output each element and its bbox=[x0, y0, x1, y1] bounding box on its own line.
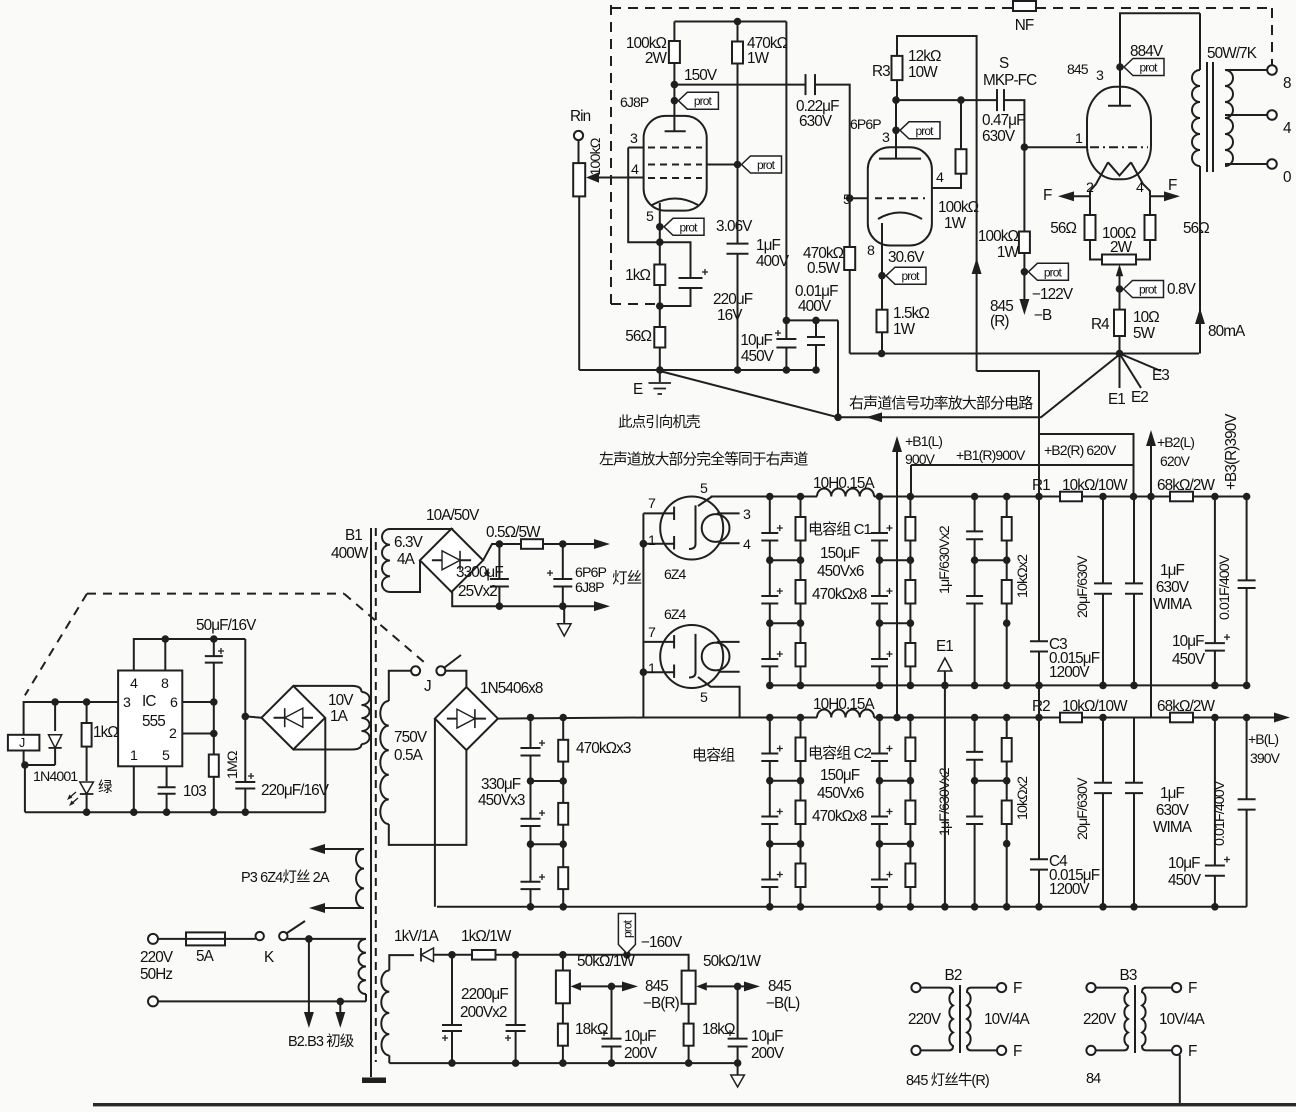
wire 0.01uF bottom bbox=[815, 345, 817, 370]
arrow F left bbox=[1058, 191, 1074, 201]
svg-text:845: 845 bbox=[1067, 61, 1089, 77]
junction 10kx2 top lower bbox=[1003, 714, 1011, 722]
svg-text:3: 3 bbox=[630, 131, 638, 147]
junction bank C1 col C tie cap 0 bbox=[876, 556, 884, 564]
wire 0.01F lower bot bbox=[1246, 810, 1248, 907]
terminal B2 pri bot bbox=[911, 1046, 920, 1055]
wire tap 0 bbox=[1225, 163, 1267, 165]
wire 10kx2 bot lower bbox=[1006, 824, 1008, 907]
junction HVrail 330a bbox=[527, 714, 535, 722]
junction bank C2 col A tie res 0 bbox=[797, 777, 805, 785]
svg-text:1A: 1A bbox=[330, 708, 349, 725]
svg-text:prot: prot bbox=[757, 158, 776, 172]
svg-text:prot: prot bbox=[1139, 61, 1158, 75]
wire 10V winding bottom bbox=[293, 749, 352, 751]
wire 2200b bot bbox=[515, 1031, 517, 1063]
wire bias top bbox=[389, 955, 414, 970]
wire R4 bottom bbox=[1119, 336, 1121, 354]
arrow 845BR bbox=[622, 981, 638, 991]
inductor OPT primary bbox=[1192, 70, 1200, 166]
svg-text:6Z4: 6Z4 bbox=[664, 606, 687, 622]
svg-text:0.01F/400V: 0.01F/400V bbox=[1217, 554, 1233, 620]
junction bank C2 col A tie cap 1 bbox=[766, 840, 774, 848]
wire bank C1 col A cap lead 2 bbox=[769, 623, 771, 659]
wire gnd tri stem bbox=[563, 606, 565, 624]
svg-text:0.5A: 0.5A bbox=[394, 747, 424, 764]
svg-text:10kΩ/10W: 10kΩ/10W bbox=[1062, 477, 1128, 494]
inductor B1 P3 winding bbox=[356, 849, 364, 908]
wire bank C2 col A tie 0 bbox=[770, 780, 801, 782]
node E1 triangle bbox=[938, 658, 952, 671]
potentiometer 100k volume bbox=[573, 163, 585, 196]
capacitor bank C1 col A 150uF 2 bbox=[761, 658, 778, 660]
capacitor bank C2 col C 150uF 2 bbox=[871, 879, 888, 881]
capacitor bank C1 col C 150uF 0 bbox=[871, 532, 888, 534]
wire +B1R supply bbox=[911, 464, 1134, 466]
svg-text:25Vx2: 25Vx2 bbox=[458, 583, 497, 600]
wire 10kx2 mid2 upper bbox=[1006, 560, 1008, 580]
inductor B1 750V winding bbox=[380, 701, 389, 824]
junction 0.01F l t bbox=[1243, 714, 1251, 722]
wire 10uF450 bot lower bbox=[1214, 876, 1216, 907]
junction rail2 x879.5 bbox=[876, 682, 884, 690]
svg-text:750V: 750V bbox=[394, 729, 428, 746]
wire LED to rail bbox=[86, 794, 88, 812]
wire bank C1 col A cap lead b 0 bbox=[769, 541, 771, 561]
svg-text:6P6P: 6P6P bbox=[575, 565, 607, 581]
capacitor 0.01uF/400V decoupling bbox=[807, 336, 825, 338]
wire pin 3 lead bbox=[628, 147, 643, 149]
wire 6Z4 upper pin1 lead bbox=[643, 543, 674, 545]
wire B1R 900V rail b bbox=[874, 496, 1060, 498]
capacitor bank C2 col C 150uF 1 bbox=[871, 816, 888, 818]
node 0.8V tap bbox=[1116, 285, 1124, 293]
wire bank C2 col A cap lead 0 bbox=[769, 718, 771, 754]
wire 330-470 tie2 bbox=[531, 843, 564, 845]
capacitor 1uF/630V a upper bbox=[966, 530, 983, 532]
wire 1k lead bbox=[86, 702, 88, 723]
inductor B1 bias winding bbox=[381, 971, 389, 1056]
wire 3300 b lead bbox=[562, 544, 564, 579]
wire 330-470 tie1 bbox=[531, 780, 564, 782]
svg-text:WIMA: WIMA bbox=[1153, 596, 1193, 613]
wire bank C1 col C cap lead b 0 bbox=[879, 541, 881, 561]
wire B2 pri bot bbox=[921, 1049, 949, 1051]
junction relay bottom bbox=[21, 761, 29, 769]
resistor bank C2 col C 470k 2 bbox=[905, 864, 915, 888]
svg-text:−B(R): −B(R) bbox=[643, 995, 680, 1012]
wire bank C1 col A res lead b 2 bbox=[800, 666, 802, 685]
wire 56 left top bbox=[1089, 196, 1091, 215]
wire BL rail segment bbox=[1082, 717, 1170, 719]
svg-text:−B(L): −B(L) bbox=[766, 995, 800, 1012]
wire bank C1 col C res lead b 0 bbox=[909, 541, 911, 561]
rectifier bridge 1N5406x8 bbox=[435, 687, 498, 750]
svg-text:1W: 1W bbox=[747, 50, 770, 67]
junction bias rail 2200a bbox=[448, 1059, 456, 1067]
wire bank C2 col C tie 1 bbox=[880, 843, 911, 845]
wire E1 stem bbox=[944, 671, 946, 907]
wire 330 col lead bbox=[530, 718, 532, 749]
switch K contact a bbox=[256, 932, 264, 940]
junction bank C1 col C tie res 0 bbox=[907, 556, 915, 564]
wire bridge to vcc bbox=[245, 716, 261, 717]
svg-text:200V: 200V bbox=[751, 1045, 785, 1062]
capacitor bank C2 col A 150uF 0 bbox=[761, 753, 778, 755]
ground triangle bias bbox=[731, 1075, 745, 1087]
wire bank C2 col A cap lead b 2 bbox=[769, 887, 771, 907]
wire tie E-F upper bbox=[975, 559, 1007, 561]
svg-text:0: 0 bbox=[1283, 169, 1291, 186]
wire J right bbox=[445, 671, 466, 687]
junction rail2 x769.8 bbox=[766, 682, 774, 690]
wire B1L 900V rail bbox=[643, 717, 817, 719]
ground triangle filament bbox=[558, 624, 572, 636]
svg-text:470kΩx8: 470kΩx8 bbox=[812, 808, 867, 825]
svg-text:2W: 2W bbox=[645, 50, 668, 67]
wire 56 right top bbox=[1149, 196, 1151, 215]
wire +B1L supply bbox=[896, 443, 898, 718]
wire bank C1 col A tie 1 bbox=[770, 622, 801, 624]
svg-text:prot: prot bbox=[694, 94, 713, 108]
node 150V plate of 6J8P bbox=[671, 81, 679, 89]
wire F left bbox=[1062, 195, 1090, 197]
svg-text:18kΩ: 18kΩ bbox=[575, 1021, 608, 1038]
junction bias rail 10uFB bbox=[734, 1059, 742, 1067]
junction 10kx2 b2 lower bbox=[1003, 840, 1011, 848]
wire 470x3 l3 bbox=[562, 781, 564, 803]
svg-text:5W: 5W bbox=[1133, 325, 1156, 342]
junction E1 mid rail bbox=[941, 682, 949, 690]
switch K lever bbox=[287, 921, 305, 933]
wire WIMA col bot lower bbox=[1133, 793, 1135, 907]
wire 10kx2 lead upper bbox=[1006, 497, 1008, 518]
terminal B2 F bot bbox=[997, 1046, 1006, 1055]
svg-text:50Hz: 50Hz bbox=[140, 966, 172, 983]
junction 1uF630 upper bbox=[971, 556, 979, 564]
capacitor 2200uF a bbox=[442, 1024, 462, 1026]
IC U1 555 box bbox=[118, 671, 182, 767]
svg-text:630V: 630V bbox=[1156, 579, 1190, 596]
wire B2 sec top bbox=[971, 987, 997, 989]
wire hum pot wiper bbox=[1119, 267, 1121, 289]
resistor 100k 1W screen bbox=[956, 149, 967, 174]
junction bank C2 col C tie cap 1 bbox=[876, 840, 884, 848]
resistor 1.5k 1W cathode bbox=[877, 310, 888, 333]
capacitor 1uF 630V WIMA upper bbox=[1125, 582, 1143, 584]
resistor bank C1 col A 470k 2 bbox=[796, 643, 806, 666]
svg-text:630V: 630V bbox=[799, 113, 833, 130]
svg-text:1200V: 1200V bbox=[1049, 881, 1090, 898]
wire bank C2 col C cap lead b 0 bbox=[879, 761, 881, 781]
wire bank C1 col C cap lead b 2 bbox=[879, 666, 881, 685]
wire 10uF B bot bbox=[737, 1047, 739, 1064]
junction 1uF630 lower bbox=[971, 777, 979, 785]
junction 10uF450 t lower bbox=[1211, 714, 1219, 722]
inductor OPT secondary bbox=[1225, 70, 1233, 166]
svg-text:220V: 220V bbox=[908, 1011, 942, 1028]
junction rail pot bbox=[656, 366, 664, 374]
resistor 470k x3 a bbox=[558, 740, 568, 762]
inductor B1 6.3V winding bbox=[382, 529, 390, 592]
junction 470x3 bot bbox=[559, 903, 567, 911]
capacitor 220uF/16V supply bbox=[235, 781, 255, 783]
svg-text:B1: B1 bbox=[345, 527, 362, 544]
svg-text:此点引向机壳: 此点引向机壳 bbox=[618, 414, 700, 431]
junction 10uF450 b lower bbox=[1211, 903, 1219, 911]
wire cathode down bbox=[659, 227, 661, 242]
wire plate to coupling cap bbox=[674, 84, 805, 86]
wire bank C1 col A cap lead b 2 bbox=[769, 666, 771, 685]
junction +B1L rail3 bbox=[893, 714, 901, 722]
svg-text:1N4001: 1N4001 bbox=[33, 769, 78, 785]
svg-text:4: 4 bbox=[130, 676, 138, 692]
capacitor 0.22uF/630V coupling bbox=[805, 74, 807, 95]
svg-text:B2.B3 初级: B2.B3 初级 bbox=[288, 1033, 354, 1050]
wire 3300 a bot bbox=[498, 587, 500, 607]
junction screen node bbox=[957, 96, 965, 104]
svg-text:F: F bbox=[1188, 980, 1197, 997]
wire 330 col l6 bbox=[530, 889, 532, 907]
junction bank C2 col A tie cap 0 bbox=[766, 777, 774, 785]
junction rail 220u bbox=[242, 808, 250, 816]
wire 56R to pot bbox=[1136, 240, 1150, 260]
svg-text:4A: 4A bbox=[397, 551, 416, 568]
prot flag -122V bbox=[1028, 263, 1068, 280]
junction 3300uF a top bbox=[496, 540, 504, 548]
wire 1.5k top bbox=[881, 276, 883, 310]
wire bank C2 col C res lead 2 bbox=[909, 844, 911, 864]
rectifier bridge 10V 1A bbox=[262, 686, 326, 750]
svg-text:+B(L): +B(L) bbox=[1248, 731, 1278, 747]
junction bank C1 col A tie res 0 bbox=[797, 556, 805, 564]
wire bank C2 col C res lead 1 bbox=[909, 781, 911, 801]
svg-text:150V: 150V bbox=[684, 67, 718, 84]
terminal mains L bbox=[148, 934, 158, 944]
svg-text:0.01F/400V: 0.01F/400V bbox=[1212, 780, 1228, 846]
tube 6Z4 lower inner bbox=[702, 643, 730, 671]
wire 0.01F upper top bbox=[1246, 497, 1248, 581]
resistor 470k x3 c bbox=[558, 867, 568, 889]
svg-text:84: 84 bbox=[1086, 1071, 1101, 1087]
svg-text:电容组 C1: 电容组 C1 bbox=[808, 521, 872, 538]
switch K contact b bbox=[279, 932, 287, 940]
wire 0.01uF lead bbox=[815, 320, 817, 337]
wire 20uF col top upper bbox=[1102, 497, 1104, 584]
resistor 18k B bbox=[684, 1024, 694, 1046]
wire HV minus bbox=[434, 719, 436, 907]
wire R4 top bbox=[1119, 289, 1121, 310]
junction 10kx2 mid lower bbox=[1003, 777, 1011, 785]
terminal 0 bbox=[1267, 159, 1277, 169]
wire 6.3V bottom to bridge bbox=[390, 560, 420, 592]
node cathode 6P6P bbox=[878, 272, 886, 280]
potentiometer 50k bias B bbox=[682, 971, 696, 1004]
resistor 1k cathode bbox=[654, 265, 665, 286]
junction bias rail 18kA bbox=[559, 1059, 567, 1067]
wire dashed feedback top run bbox=[611, 7, 1013, 9]
prot flag cathode 6P6P bbox=[886, 267, 926, 284]
potentiometer 50k bias A bbox=[556, 971, 570, 1004]
arrow -B down bbox=[1019, 299, 1029, 315]
capacitor 0.01F/400V lower bbox=[1238, 798, 1256, 800]
wire bank C1 col A res lead 0 bbox=[800, 497, 802, 518]
capacitor bank C1 col C 150uF 1 bbox=[871, 595, 888, 597]
prot flag plate 6P6P bbox=[900, 122, 940, 139]
junction rail3 x879.5 bbox=[876, 714, 884, 722]
terminal B2 pri top bbox=[911, 983, 920, 992]
junction Vcc node bbox=[242, 713, 250, 721]
wire 330 col l4 bbox=[530, 826, 532, 844]
arrow 845BL bbox=[744, 981, 760, 991]
wire B2 pri top bbox=[921, 987, 949, 989]
svg-text:S: S bbox=[999, 55, 1009, 72]
arrow +BL out bbox=[1274, 713, 1290, 723]
svg-text:prot: prot bbox=[679, 220, 698, 234]
wire decoupling top link bbox=[786, 319, 838, 321]
tube 845 filament bbox=[1108, 162, 1131, 175]
capacitor 103 bbox=[158, 786, 176, 788]
wire 10kx2 lead lower bbox=[1006, 718, 1008, 739]
junction 1uF630 top lower bbox=[971, 714, 979, 722]
diode 1N4001 bbox=[49, 735, 62, 748]
wire bank C2 col A cap lead 2 bbox=[769, 844, 771, 880]
svg-text:100kΩ: 100kΩ bbox=[978, 228, 1019, 245]
wire B1L rail b bbox=[874, 717, 1060, 719]
wire bank C2 col C cap lead 2 bbox=[879, 844, 881, 880]
capacitor 10uF/200V A bbox=[602, 1038, 622, 1040]
svg-text:400V: 400V bbox=[756, 253, 790, 270]
wire HV plus rail bbox=[498, 718, 644, 719]
wire filament leg 2 bbox=[1090, 162, 1108, 196]
svg-text:10μF: 10μF bbox=[624, 1028, 656, 1045]
wire bank C2 col A cap lead b 1 bbox=[769, 824, 771, 844]
wire 10kx2 bot upper bbox=[1006, 604, 1008, 686]
svg-text:2200μF: 2200μF bbox=[461, 986, 508, 1003]
tube 6Z4 upper plate bar a bbox=[673, 507, 675, 520]
prot flag cathode 6J8P bbox=[664, 218, 704, 235]
svg-text:1kV/1A: 1kV/1A bbox=[394, 928, 440, 945]
svg-text:845: 845 bbox=[645, 978, 668, 995]
wire 2200b lead bbox=[515, 955, 517, 1025]
wire 470x3 l2 bbox=[562, 762, 564, 781]
wire bank C1 col C cap lead 2 bbox=[879, 623, 881, 659]
wire +B2R jog bbox=[977, 371, 1134, 497]
ground chassis bar bbox=[362, 1078, 386, 1084]
wire bank C2 col C cap lead b 2 bbox=[879, 887, 881, 907]
svg-text:200Vx2: 200Vx2 bbox=[460, 1004, 507, 1021]
wire 6Z4 lower pin5 to rail bbox=[698, 677, 740, 718]
resistor 56R filament right bbox=[1145, 215, 1156, 240]
wire bank C1 col A res lead b 1 bbox=[800, 604, 802, 624]
junction primary arrow a bbox=[305, 935, 313, 943]
junction bank C1 col A tie cap 0 bbox=[766, 556, 774, 564]
wire arrow a stem bbox=[308, 939, 310, 1013]
resistor 18k A bbox=[558, 1024, 568, 1046]
capacitor 10uF/450V lower bbox=[1205, 865, 1225, 867]
svg-text:prot: prot bbox=[1139, 283, 1158, 297]
wire 10uF450 top lower bbox=[1214, 718, 1216, 866]
wire bias return rail bbox=[389, 1062, 737, 1064]
arrow F right bbox=[1164, 191, 1180, 201]
wire bank C1 col A cap lead b 1 bbox=[769, 604, 771, 624]
wire plate lead bbox=[673, 85, 675, 132]
capacitor bank C1 col A 150uF 0 bbox=[761, 532, 778, 534]
tube 845 plate bar bbox=[1108, 105, 1131, 107]
wire 6Z4 lower pin7 lead bbox=[643, 641, 674, 643]
wire 555 pin8 riser bbox=[164, 639, 166, 671]
wire 470k to screen node bbox=[737, 64, 739, 165]
junction 50uF top bbox=[210, 635, 218, 643]
wire filament return bbox=[452, 592, 602, 606]
wire 1uF630 col mid upper bbox=[974, 539, 976, 596]
wire 10uF450 bot upper bbox=[1214, 651, 1216, 686]
wire screen lead bbox=[932, 174, 961, 188]
wire 1uF630 col bot lower bbox=[974, 824, 976, 907]
node cathode prot tap bbox=[656, 223, 664, 231]
wire wiper B bbox=[707, 985, 752, 987]
wire bank C1 col A cap lead 1 bbox=[769, 560, 771, 596]
svg-text:(R): (R) bbox=[990, 313, 1009, 330]
svg-text:4: 4 bbox=[936, 170, 944, 186]
wire plate node to S cap bbox=[896, 99, 997, 101]
wire 620V rail segment bbox=[1082, 496, 1170, 498]
wire 100k grid leak top bbox=[1023, 147, 1025, 231]
svg-text:6P6P: 6P6P bbox=[850, 116, 881, 132]
svg-text:2: 2 bbox=[1086, 180, 1094, 196]
capacitor bank C2 col C 150uF 0 bbox=[871, 753, 888, 755]
wire WIMA col top lower bbox=[1133, 718, 1135, 783]
wire ground rail input stage bbox=[579, 369, 818, 371]
diode 1kV/1A bbox=[420, 948, 422, 962]
svg-text:R4: R4 bbox=[1091, 316, 1110, 333]
wire bias rail to potB bbox=[627, 955, 689, 971]
wire diode to relay bottom bbox=[25, 764, 55, 766]
svg-text:1N5406x8: 1N5406x8 bbox=[480, 680, 543, 697]
svg-text:450Vx6: 450Vx6 bbox=[817, 563, 864, 580]
wire dashed feedback left vertical bbox=[610, 5, 612, 304]
junction rail 1uF bbox=[734, 366, 742, 374]
svg-text:1W: 1W bbox=[944, 215, 967, 232]
wire to -B bbox=[1023, 272, 1025, 305]
svg-text:30.6V: 30.6V bbox=[888, 249, 925, 266]
svg-text:E1: E1 bbox=[936, 638, 953, 655]
transformer OPT core b bbox=[1212, 62, 1214, 172]
wire bank C2 col A res lead 1 bbox=[800, 781, 802, 801]
wire 555 pin4 riser bbox=[134, 639, 246, 671]
junction 20uF bot upper bbox=[1099, 682, 1107, 690]
wire bank C1 col C tie 1 bbox=[880, 622, 911, 624]
inductor B1 primary bbox=[359, 939, 366, 994]
resistor bank C1 col C 470k 0 bbox=[905, 517, 915, 541]
svg-text:5: 5 bbox=[162, 748, 170, 764]
wire 6.3V top to bridge bbox=[390, 528, 452, 530]
wire 3300 a lead bbox=[498, 544, 500, 579]
svg-text:4: 4 bbox=[743, 537, 751, 553]
wire 0.01F lower top bbox=[1246, 718, 1248, 800]
svg-text:1W: 1W bbox=[997, 244, 1020, 261]
resistor 56R cathode bbox=[654, 327, 665, 348]
switch J contact b bbox=[436, 666, 445, 675]
wire to right channel run bbox=[838, 355, 1120, 418]
prot flag 884V bbox=[1124, 59, 1164, 76]
wire bank C2 col A cap lead b 0 bbox=[769, 761, 771, 781]
ground E bbox=[649, 383, 672, 394]
svg-text:prot: prot bbox=[1044, 265, 1063, 279]
svg-text:450V: 450V bbox=[741, 348, 775, 365]
arrow to right channel bbox=[866, 412, 882, 422]
wire E3 stub bbox=[1120, 354, 1162, 372]
